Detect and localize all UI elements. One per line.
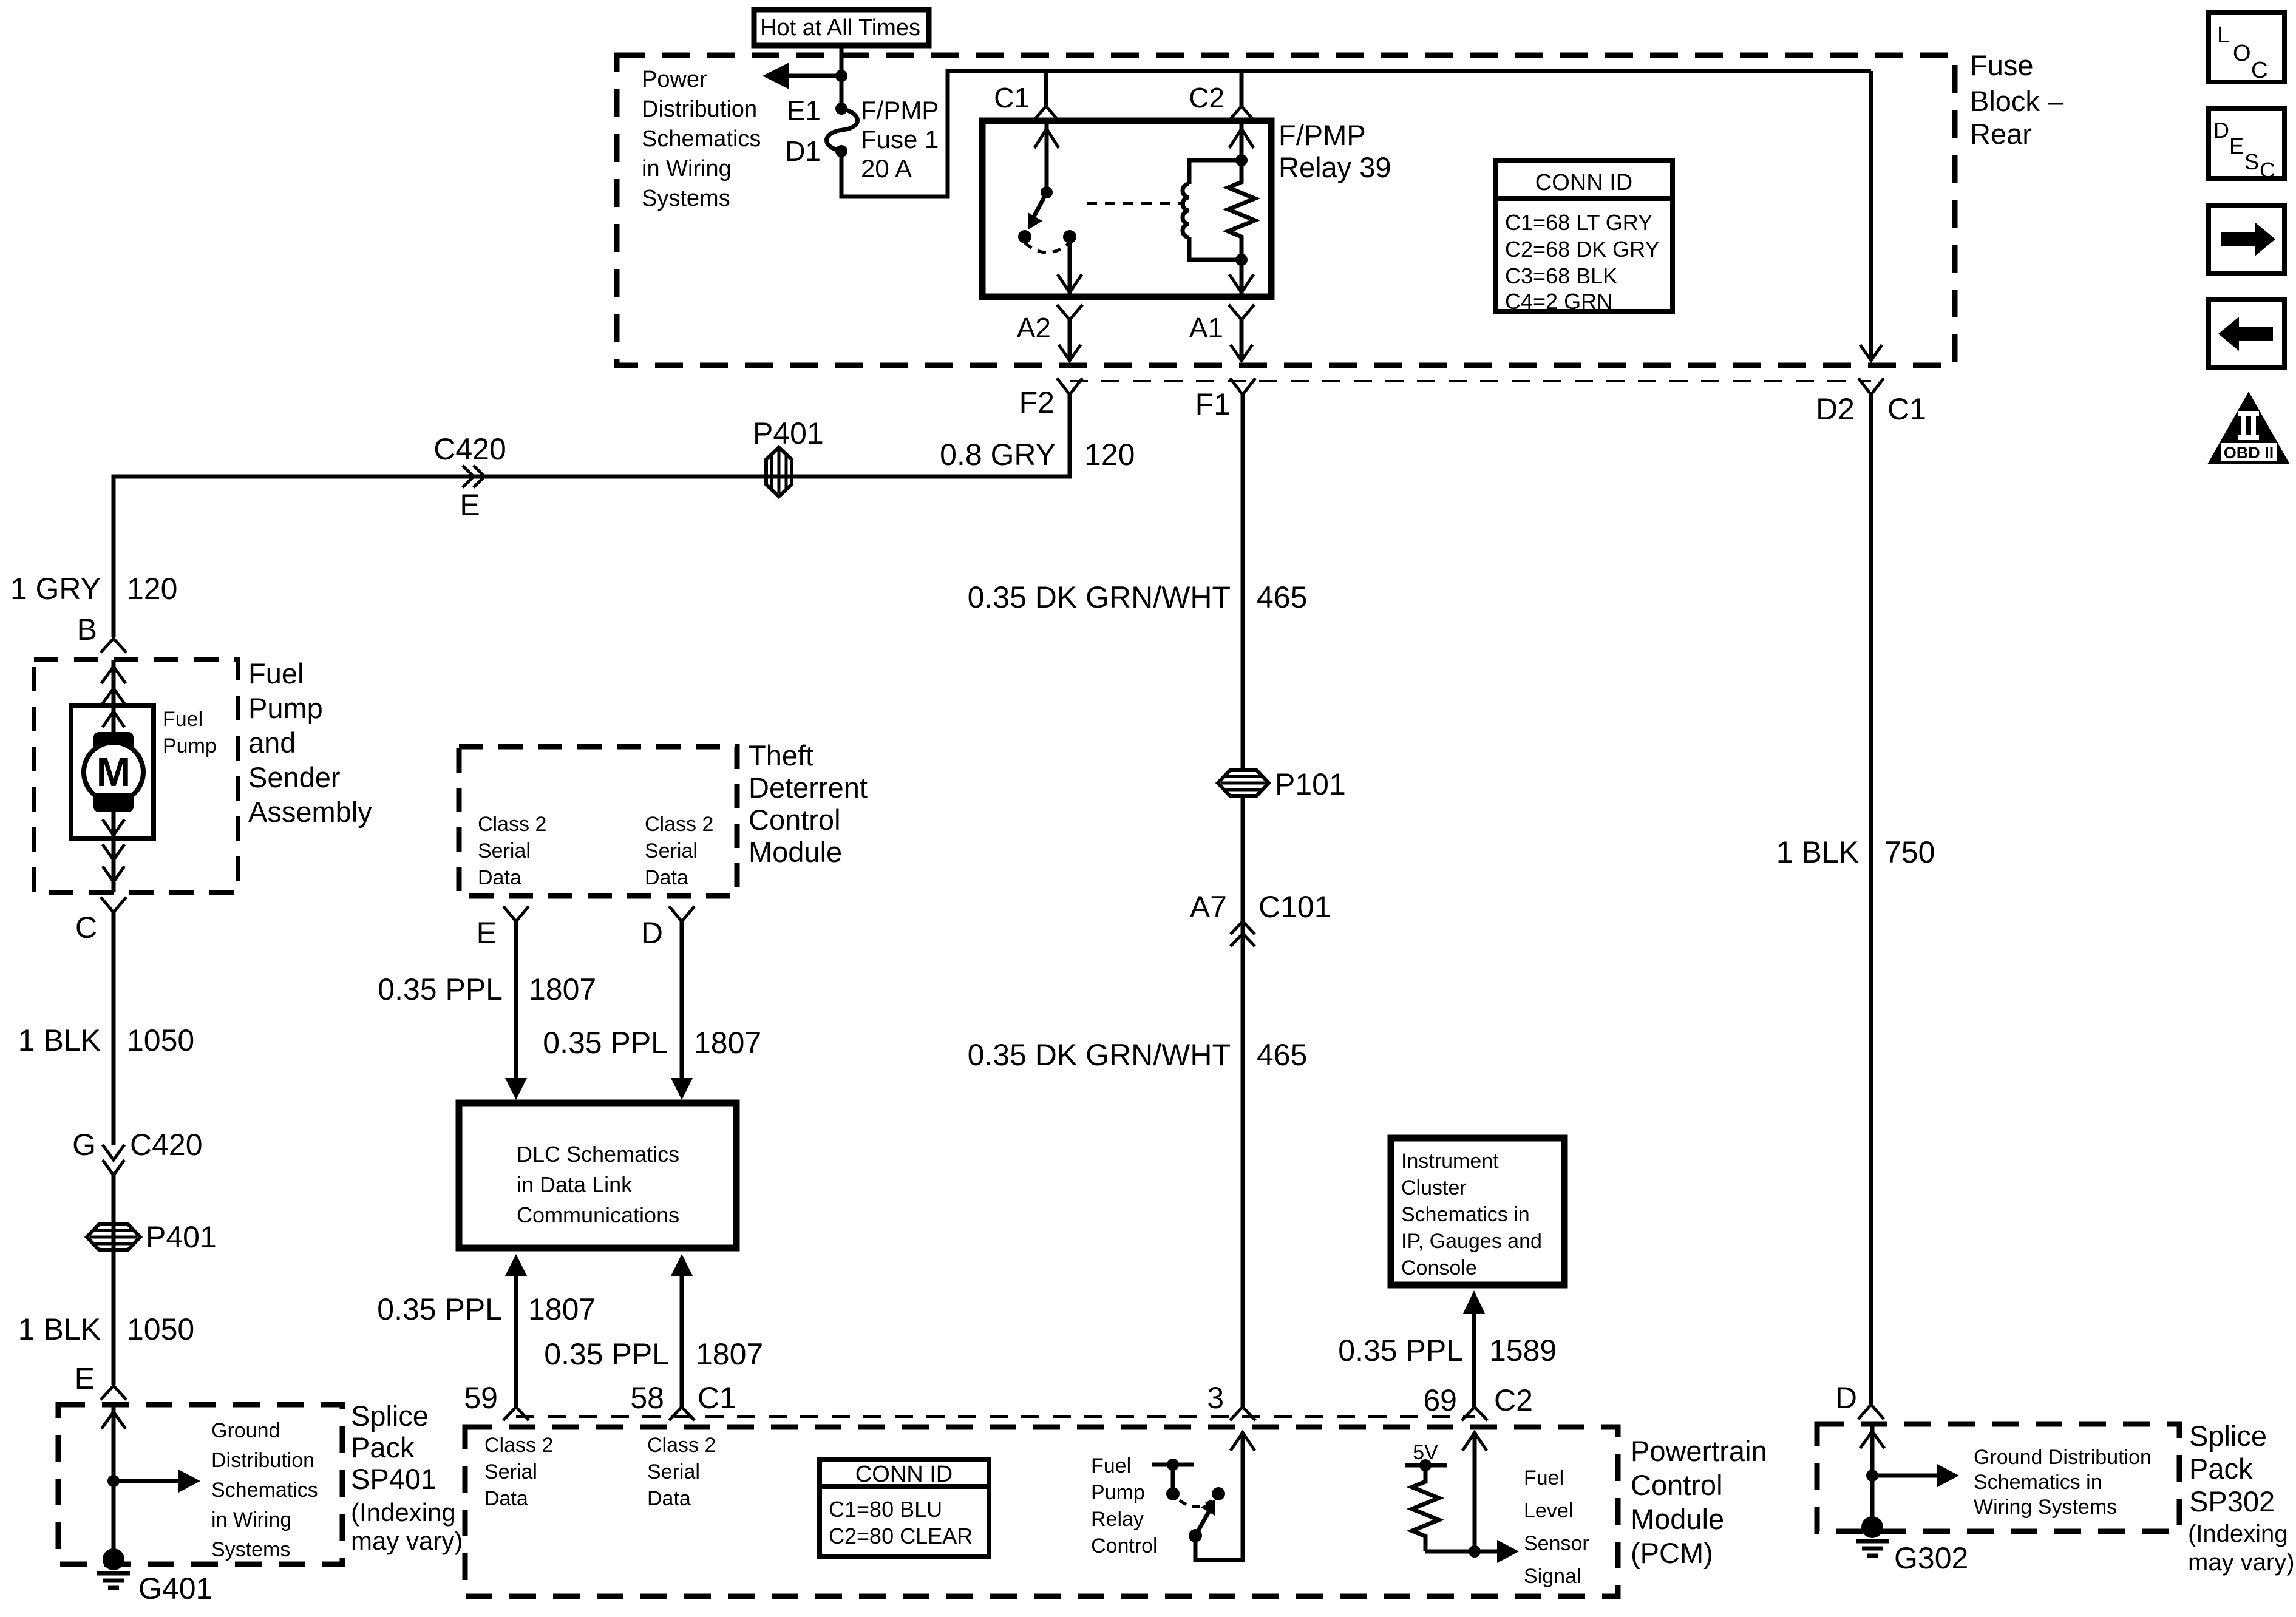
arrow fuel level sensor signal — [1497, 1540, 1519, 1563]
wire from fuse D1 to relay C1 — [841, 71, 1046, 197]
svg-text:Control: Control — [1631, 1469, 1723, 1501]
note "Ground Distribution Schematics in Wiring Systems" — [211, 1419, 318, 1561]
note "Class 2 Serial Data" PCM right — [647, 1434, 716, 1510]
wire into pump — [101, 660, 126, 705]
svg-text:1050: 1050 — [127, 1023, 194, 1057]
svg-text:Fuel: Fuel — [163, 708, 203, 731]
connector chevron C1 — [1033, 106, 1059, 121]
svg-text:Console: Console — [1401, 1256, 1477, 1280]
wire label "0.35 PPL 1807" pin 59 wire — [377, 1292, 596, 1326]
svg-text:and: and — [248, 727, 296, 759]
note "Instrument Cluster Schematics in IP, Gauges and Console" — [1401, 1150, 1542, 1280]
svg-text:SP401: SP401 — [351, 1463, 436, 1495]
svg-text:in Wiring: in Wiring — [642, 156, 732, 181]
wire label "0.35 PPL 1589" — [1338, 1334, 1557, 1368]
svg-text:C3=68 BLK: C3=68 BLK — [1505, 263, 1617, 288]
relay actuate dashed link — [1087, 202, 1185, 205]
svg-text:A2: A2 — [1017, 312, 1051, 344]
svg-text:Pack: Pack — [351, 1431, 415, 1463]
connector chevron F2 — [1057, 378, 1082, 395]
wire C to G C420 — [112, 912, 116, 1145]
svg-text:1 BLK: 1 BLK — [1776, 835, 1859, 869]
wire label "1 BLK 1050" lower — [18, 1312, 194, 1346]
svg-text:Relay: Relay — [1091, 1508, 1144, 1531]
connector chevron E theft module — [503, 906, 529, 921]
svg-text:Cluster: Cluster — [1401, 1176, 1467, 1199]
wire coil bottom to A1 — [1229, 260, 1254, 295]
svg-text:1 GRY: 1 GRY — [10, 572, 101, 606]
svg-text:C: C — [2260, 158, 2275, 183]
wire F1 to P101 — [1241, 395, 1245, 771]
label "Splice Pack SP401 (Indexing may vary)" — [351, 1400, 463, 1555]
svg-text:Fuel: Fuel — [1524, 1466, 1564, 1490]
svg-text:C2: C2 — [1494, 1383, 1533, 1417]
svg-text:Hot at All Times: Hot at All Times — [760, 15, 920, 41]
connector C101 pass-through — [1231, 921, 1255, 946]
svg-text:Splice: Splice — [351, 1400, 429, 1432]
svg-text:B: B — [77, 612, 97, 646]
svg-text:Control: Control — [749, 804, 841, 836]
svg-text:C1: C1 — [1887, 392, 1926, 426]
theft deterrent control module dashed box — [459, 747, 737, 896]
wire resistor to sensor signal node — [1425, 1550, 1500, 1554]
wire F2 to fuel pump B — [114, 395, 1070, 637]
svg-text:69: 69 — [1423, 1383, 1457, 1417]
svg-text:D: D — [1835, 1381, 1857, 1415]
svg-text:Distribution: Distribution — [211, 1449, 314, 1472]
svg-text:Data: Data — [484, 1487, 528, 1510]
label "Theft Deterrent Control Module" — [749, 739, 868, 868]
connector chevron pin 69 — [1462, 1407, 1487, 1420]
instrument cluster box — [1391, 1138, 1564, 1285]
motor M fuel pump — [84, 705, 143, 838]
svg-text:Systems: Systems — [211, 1538, 290, 1561]
svg-text:C1=80 BLU: C1=80 BLU — [829, 1497, 942, 1522]
note "Fuel Pump" — [163, 708, 217, 758]
icon OBD II triangle — [2207, 392, 2290, 464]
note "Fuel Level Sensor Signal" — [1524, 1466, 1589, 1588]
svg-text:M: M — [97, 749, 131, 795]
svg-text:D: D — [2213, 118, 2229, 143]
svg-text:3: 3 — [1207, 1381, 1224, 1415]
svg-text:A7: A7 — [1190, 890, 1227, 924]
wire A1 to F1 — [1231, 320, 1252, 361]
svg-text:1 BLK: 1 BLK — [18, 1023, 101, 1057]
connector chevron E splice pack — [101, 1386, 126, 1400]
connector chevron B — [101, 639, 126, 653]
svg-text:Serial: Serial — [484, 1460, 537, 1483]
PCM dashed box — [465, 1427, 1618, 1596]
svg-text:C: C — [2251, 58, 2267, 83]
svg-text:Sender: Sender — [248, 761, 341, 793]
svg-text:0.8 GRY: 0.8 GRY — [940, 438, 1056, 472]
CONN ID table fuse block — [1495, 161, 1673, 314]
fuel pump relay control driver switch — [1152, 1459, 1225, 1542]
fuel pump motor box — [71, 705, 154, 838]
svg-text:E: E — [2229, 134, 2244, 158]
wire label "1 BLK 1050" — [18, 1023, 194, 1057]
note "Class 2 Serial Data" right — [645, 813, 713, 889]
svg-text:Class 2: Class 2 — [484, 1434, 553, 1457]
svg-text:C420: C420 — [433, 432, 506, 466]
svg-text:Pump: Pump — [1091, 1481, 1145, 1504]
wire pin 69 to instrument cluster — [1463, 1290, 1485, 1407]
svg-text:Instrument: Instrument — [1401, 1150, 1499, 1173]
svg-text:Module: Module — [1631, 1503, 1724, 1535]
svg-text:1 BLK: 1 BLK — [18, 1312, 101, 1346]
wire DLC to pin 59 — [505, 1254, 527, 1407]
svg-text:Schematics in: Schematics in — [1401, 1203, 1530, 1226]
svg-text:Module: Module — [749, 836, 842, 868]
svg-text:Data: Data — [647, 1487, 691, 1510]
svg-text:120: 120 — [1084, 438, 1135, 472]
svg-text:D: D — [641, 916, 663, 950]
svg-text:C4=2 GRN: C4=2 GRN — [1505, 289, 1612, 314]
note "Ground Distribution Schematics in Wiring Systems" SP302 — [1974, 1446, 2152, 1519]
svg-text:465: 465 — [1257, 1038, 1307, 1072]
svg-text:DLC Schematics: DLC Schematics — [517, 1142, 679, 1167]
node junction on hot feed — [835, 70, 847, 82]
svg-text:0.35 DK GRN/WHT: 0.35 DK GRN/WHT — [968, 1038, 1231, 1072]
svg-text:Pack: Pack — [2189, 1453, 2253, 1485]
5V supply bar — [1405, 1459, 1447, 1471]
svg-text:C1: C1 — [994, 82, 1030, 114]
icon arrow right — [2209, 205, 2284, 273]
connector chevron C — [101, 897, 126, 912]
splice pack SP401 dashed box — [58, 1405, 342, 1564]
wire DLC to pin 58 — [671, 1254, 693, 1407]
wire NO contact to A2 — [1058, 237, 1082, 295]
svg-text:Class 2: Class 2 — [478, 813, 546, 836]
relay switch movable blade — [1028, 192, 1047, 229]
svg-text:120: 120 — [127, 572, 177, 606]
svg-text:D1: D1 — [785, 135, 821, 167]
svg-text:OBD II: OBD II — [2224, 444, 2274, 462]
svg-text:0.35 PPL: 0.35 PPL — [377, 1292, 502, 1326]
svg-text:59: 59 — [464, 1381, 498, 1415]
svg-text:Ground Distribution: Ground Distribution — [1974, 1446, 2152, 1469]
wire into SP401 — [101, 1407, 126, 1559]
svg-text:C2=68 DK GRY: C2=68 DK GRY — [1505, 237, 1659, 262]
svg-text:may vary): may vary) — [2188, 1549, 2295, 1576]
wire G to P401 — [112, 1175, 116, 1385]
svg-text:465: 465 — [1257, 580, 1307, 614]
svg-text:CONN ID: CONN ID — [855, 1462, 953, 1487]
svg-text:Level: Level — [1524, 1499, 1573, 1522]
note "Fuel Pump Relay Control" — [1091, 1454, 1158, 1558]
svg-text:C2: C2 — [1189, 82, 1224, 114]
svg-text:1589: 1589 — [1489, 1334, 1557, 1368]
wire label "0.35 PPL 1807" E wire — [378, 972, 596, 1006]
svg-text:Data: Data — [478, 866, 521, 889]
resistor inside relay — [1228, 160, 1255, 260]
svg-text:L: L — [2217, 22, 2230, 48]
svg-text:C420: C420 — [130, 1128, 203, 1162]
relay box F/PMP Relay 39 — [982, 121, 1271, 297]
note "Power Distribution Schematics in Wiring Systems" — [642, 67, 761, 211]
label "Splice Pack SP302 (Indexing may vary)" — [2188, 1420, 2295, 1576]
svg-text:Systems: Systems — [642, 186, 730, 211]
svg-text:1807: 1807 — [528, 1292, 596, 1326]
svg-text:Pump: Pump — [163, 734, 217, 758]
wire label "0.35 DK GRN/WHT 465" upper — [968, 580, 1308, 614]
wire P101 to C101 — [1241, 796, 1245, 1407]
svg-text:F/PMP: F/PMP — [861, 96, 939, 124]
svg-text:C: C — [75, 910, 97, 944]
svg-text:(Indexing: (Indexing — [351, 1498, 456, 1527]
svg-text:Serial: Serial — [645, 839, 698, 863]
svg-text:Class 2: Class 2 — [645, 813, 713, 836]
label "F/PMP Relay 39" — [1279, 119, 1391, 183]
svg-text:E: E — [460, 488, 480, 522]
wire D to DLC — [671, 921, 693, 1100]
node coil bottom — [1235, 254, 1248, 266]
CONN ID table PCM — [820, 1460, 989, 1556]
svg-text:SP302: SP302 — [2189, 1485, 2275, 1517]
svg-text:F/PMP: F/PMP — [1279, 119, 1366, 151]
wire D2 to SP302 — [1869, 395, 1873, 1404]
svg-text:Class 2: Class 2 — [647, 1434, 716, 1457]
wire from top feed to C2 and fuse block output — [1046, 69, 1871, 73]
icon LOC — [2209, 13, 2284, 83]
svg-text:Theft: Theft — [749, 739, 813, 771]
svg-text:Data: Data — [645, 866, 688, 889]
svg-text:P401: P401 — [146, 1220, 217, 1254]
connector chevron pin 3 — [1230, 1407, 1255, 1420]
wire switch to pin 3 — [1195, 1432, 1255, 1560]
wire label "0.35 PPL 1807" pin 58 wire — [544, 1337, 763, 1371]
wire into SP302 — [1860, 1426, 1884, 1527]
svg-text:CONN ID: CONN ID — [1535, 170, 1632, 195]
value label "F/PMP Fuse 1 20 A" — [861, 96, 939, 183]
fuse F/PMP Fuse 1 20 A — [826, 103, 857, 157]
label "Fuse Block - Rear" — [1970, 49, 2064, 150]
connector chevron D SP302 — [1858, 1405, 1884, 1419]
svg-text:Block –: Block – — [1970, 85, 2064, 117]
svg-text:0.35 PPL: 0.35 PPL — [543, 1026, 668, 1060]
svg-text:(Indexing: (Indexing — [2188, 1520, 2288, 1547]
wire label "0.35 DK GRN/WHT 465" lower — [968, 1038, 1308, 1072]
svg-text:0.35 PPL: 0.35 PPL — [544, 1337, 669, 1371]
svg-text:Fuel: Fuel — [248, 657, 304, 690]
svg-text:in Data Link: in Data Link — [517, 1172, 633, 1197]
resistor fuel level pull-up — [1412, 1465, 1439, 1551]
splice P101 — [1218, 770, 1269, 796]
svg-text:F1: F1 — [1195, 387, 1231, 421]
dashed throw arc — [1025, 243, 1070, 253]
svg-text:1807: 1807 — [694, 1026, 761, 1060]
svg-text:C1=68 LT GRY: C1=68 LT GRY — [1505, 210, 1652, 235]
svg-text:P401: P401 — [753, 416, 824, 450]
relay contact NC — [1018, 230, 1031, 243]
note "Class 2 Serial Data" PCM left — [484, 1434, 553, 1510]
svg-text:Rear: Rear — [1970, 118, 2032, 150]
svg-text:1807: 1807 — [696, 1337, 763, 1371]
connector C420 lower pass-through — [103, 1145, 124, 1175]
node SP302 tap — [1866, 1470, 1878, 1482]
connector chevron F1 — [1230, 378, 1255, 395]
svg-text:G: G — [72, 1128, 96, 1162]
svg-text:P101: P101 — [1275, 767, 1346, 801]
svg-text:Assembly: Assembly — [248, 796, 372, 828]
svg-text:(PCM): (PCM) — [1631, 1537, 1713, 1569]
svg-text:Distribution: Distribution — [642, 97, 757, 122]
arrow to ground distribution schematics — [114, 1470, 200, 1493]
svg-text:Serial: Serial — [478, 839, 531, 863]
splice P401 symbol on pump feed — [766, 447, 792, 497]
svg-text:58: 58 — [630, 1381, 664, 1415]
ground G302 — [1856, 1516, 1889, 1556]
wire label "1 BLK 750" — [1776, 835, 1935, 869]
arrow to power distribution schematics — [763, 63, 789, 89]
ground G401 — [97, 1548, 130, 1588]
label "Fuel Pump and Sender Assembly" — [248, 657, 372, 828]
connector chevron pin 58 — [669, 1407, 695, 1420]
svg-text:in Wiring: in Wiring — [211, 1508, 291, 1531]
wire pin 69 into PCM — [1462, 1432, 1487, 1551]
svg-text:Power: Power — [642, 67, 707, 92]
splice pack SP302 dashed box — [1817, 1424, 2179, 1531]
svg-text:E: E — [477, 916, 497, 950]
svg-text:O: O — [2233, 41, 2251, 66]
wire stub C2 — [1240, 71, 1244, 106]
svg-text:C101: C101 — [1258, 890, 1331, 924]
wire A2 to F2 — [1059, 320, 1081, 361]
svg-text:C2=80 CLEAR: C2=80 CLEAR — [829, 1524, 973, 1548]
svg-text:Relay 39: Relay 39 — [1279, 151, 1391, 183]
wire out of pump — [103, 838, 124, 892]
connector chevron A1 — [1229, 305, 1254, 320]
connector chevron D theft module — [669, 906, 695, 921]
svg-text:Fuse 1: Fuse 1 — [861, 125, 939, 154]
connector chevron pin 59 — [503, 1407, 529, 1420]
svg-text:E1: E1 — [787, 95, 821, 126]
svg-text:Schematics: Schematics — [211, 1479, 318, 1502]
svg-text:A1: A1 — [1189, 312, 1223, 344]
svg-text:Pump: Pump — [248, 692, 323, 724]
relay contact NO — [1063, 230, 1076, 243]
svg-text:Serial: Serial — [647, 1460, 700, 1483]
svg-text:Signal: Signal — [1524, 1565, 1581, 1588]
icon DESC — [2209, 109, 2284, 183]
connector C420 pass-through — [463, 466, 484, 487]
node sensor signal — [1469, 1545, 1481, 1558]
fuel pump assembly dashed box — [34, 660, 238, 892]
wire fuse block output to D2 — [1860, 71, 1882, 361]
connector chevron D2/C1 — [1858, 378, 1884, 395]
icon arrow left — [2209, 300, 2284, 368]
svg-text:IP, Gauges and: IP, Gauges and — [1401, 1230, 1542, 1253]
node SP401 tap — [107, 1475, 120, 1487]
connector chevron A2 — [1057, 305, 1082, 320]
relay switch common leg from C1 — [1034, 121, 1059, 198]
svg-text:0.35 PPL: 0.35 PPL — [378, 972, 503, 1006]
svg-text:Sensor: Sensor — [1524, 1532, 1589, 1555]
svg-text:0.35 DK GRN/WHT: 0.35 DK GRN/WHT — [968, 580, 1231, 614]
connector line PCM top (thin dashed) — [516, 1415, 1475, 1418]
svg-text:20 A: 20 A — [861, 154, 912, 183]
svg-text:Wiring Systems: Wiring Systems — [1974, 1496, 2117, 1519]
svg-text:750: 750 — [1884, 835, 1935, 869]
fuse block dashed box — [617, 55, 1955, 365]
label box "Hot at All Times" — [754, 10, 929, 46]
svg-text:Splice: Splice — [2189, 1420, 2267, 1452]
relay coil branch from C2 — [1229, 121, 1254, 166]
svg-text:Powertrain: Powertrain — [1631, 1435, 1767, 1467]
svg-text:Control: Control — [1091, 1534, 1158, 1558]
wire label "1 GRY 120" — [10, 572, 178, 606]
svg-text:C1: C1 — [698, 1381, 736, 1415]
wire label "0.35 PPL 1807" D wire — [543, 1026, 761, 1060]
splice P401 symbol lower — [87, 1224, 140, 1250]
svg-text:Communications: Communications — [517, 1202, 679, 1227]
svg-text:D2: D2 — [1816, 392, 1855, 426]
svg-text:S: S — [2244, 149, 2259, 174]
wire label "0.8 GRY 120" — [940, 438, 1135, 472]
svg-text:E: E — [75, 1361, 95, 1395]
svg-text:may vary): may vary) — [351, 1527, 463, 1555]
svg-text:Fuel: Fuel — [1091, 1454, 1131, 1477]
svg-text:Ground: Ground — [211, 1419, 280, 1442]
svg-text:1050: 1050 — [127, 1312, 194, 1346]
svg-text:0.35 PPL: 0.35 PPL — [1338, 1334, 1463, 1368]
svg-text:Schematics in: Schematics in — [1974, 1471, 2102, 1494]
wire to power distribution — [789, 74, 841, 78]
svg-text:Deterrent: Deterrent — [749, 771, 868, 804]
note "DLC Schematics in Data Link Communications" — [517, 1142, 679, 1227]
svg-text:G401: G401 — [138, 1571, 212, 1605]
arrow to ground distribution schematics SP302 — [1872, 1464, 1959, 1487]
connector line fuse block bottom (thin dashed) — [1070, 380, 1871, 382]
svg-text:Fuse: Fuse — [1970, 49, 2034, 81]
coil left branch with winding — [1183, 160, 1241, 260]
svg-text:G302: G302 — [1894, 1541, 1968, 1575]
wire from Hot at All Times down to fuse — [840, 46, 844, 109]
connector chevron C2 — [1229, 106, 1254, 121]
note "Class 2 Serial Data" left — [478, 813, 546, 889]
svg-text:Schematics: Schematics — [642, 126, 761, 152]
label "Powertrain Control Module (PCM)" — [1631, 1435, 1767, 1569]
wire E to DLC — [505, 921, 527, 1100]
DLC schematics box — [459, 1103, 736, 1248]
svg-text:1807: 1807 — [529, 972, 596, 1006]
svg-text:F2: F2 — [1019, 385, 1055, 419]
